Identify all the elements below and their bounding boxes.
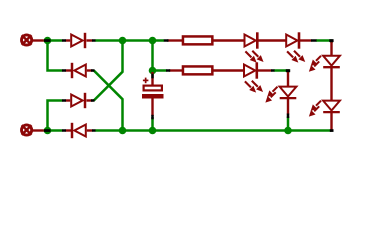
pin end marker D1 left <box>62 39 66 42</box>
wire bottom rail left <box>50 129 62 132</box>
LED LED1 <box>245 32 287 61</box>
wire cap to bottom rail <box>151 117 154 131</box>
junction node minus rail 1 <box>119 127 127 135</box>
wire AC1 drop to D2 <box>48 42 63 71</box>
diode D1 <box>66 33 93 48</box>
pin end marker R2 left <box>166 69 170 72</box>
pin end marker LED5 bottom <box>287 114 290 119</box>
resistor R2 <box>169 66 244 74</box>
LED LED2 <box>286 32 311 61</box>
LED LED3 <box>244 62 272 91</box>
pin end marker C1 top <box>151 74 154 79</box>
wire row2 LED3 to corner <box>274 71 288 74</box>
terminal X1 <box>22 35 46 45</box>
LED LED5 mid vertical <box>266 72 296 115</box>
wire AC2 rise to D3 <box>48 101 63 130</box>
pin end marker corner LED4 <box>329 39 333 42</box>
diode D4 <box>66 123 93 138</box>
wire top rail mid <box>95 39 164 42</box>
LED LED4 top right vertical <box>310 42 340 101</box>
junction node VPLUS row2 <box>149 67 157 75</box>
wire bottom rail <box>95 129 331 132</box>
pin end marker D1 right <box>92 39 96 42</box>
pin end marker R1 left <box>164 39 169 42</box>
pin end marker C1 bottom <box>151 115 154 120</box>
pin end marker corner LED6 bottom <box>330 129 334 132</box>
pin end marker D3 right <box>91 99 95 102</box>
pin end marker D2 left <box>62 69 66 72</box>
pin end marker D3 left <box>62 99 66 102</box>
resistor R1 <box>167 36 244 44</box>
wire row2 junction to R2 <box>153 69 167 72</box>
wire plus rail to cap junction <box>151 41 154 71</box>
junction node minus rail 2 <box>149 127 157 135</box>
diode D2 <box>66 63 93 78</box>
wire top rail left <box>50 39 62 42</box>
pin end marker X2 junction <box>44 129 51 132</box>
pin end marker LED2 right <box>311 39 317 42</box>
wire diagonal D3 cathode to plus rail <box>94 41 123 101</box>
capacitor C1 <box>142 72 164 116</box>
diode D3 <box>66 93 93 108</box>
junction node plus rail 2 <box>149 37 157 45</box>
junction node minus rail 3 <box>284 127 292 135</box>
LED LED6 bottom right vertical <box>310 101 340 130</box>
junction node AC1 <box>44 37 52 45</box>
junction node plus rail 1 <box>119 37 127 45</box>
pin end marker LED3 right <box>271 69 275 72</box>
pin end marker X1 junction <box>44 39 51 42</box>
pin end marker D4 right <box>92 129 96 132</box>
wire diagonal D2 anode to minus rail <box>94 71 123 131</box>
pin end marker D2 right <box>91 69 95 72</box>
pin end marker D4 left <box>62 129 66 132</box>
wire LED5 to bottom rail <box>287 117 290 131</box>
terminal X2 <box>22 125 46 135</box>
pin end marker corner LED5 <box>286 69 290 72</box>
wire row1 LED2 to corner <box>316 41 332 44</box>
junction node AC2 <box>44 127 52 135</box>
